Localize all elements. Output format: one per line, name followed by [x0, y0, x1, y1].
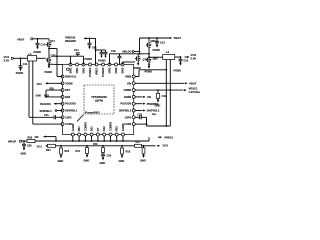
capacitor C21: [44, 114, 63, 119]
wire QB2 source: [148, 63, 150, 66]
svg-text:CSP2: CSP2: [125, 116, 132, 119]
svg-text:(QFN): (QFN): [95, 98, 103, 102]
svg-text:QT3: QT3: [143, 58, 148, 61]
pin left CON1: [61, 123, 73, 127]
wire L2 leg B: [169, 60, 171, 127]
svg-text:GND: GND: [119, 159, 125, 163]
pin bottom RT: [96, 127, 100, 136]
svg-text:SKIPSEL1: SKIPSEL1: [40, 110, 53, 113]
wire EN3 row: [36, 95, 63, 98]
ground PGND C11: [16, 71, 24, 75]
svg-text:R13: R13: [93, 143, 98, 146]
wire VINLDO: [134, 52, 139, 54]
svg-text:SW2: SW2: [121, 67, 125, 73]
capacitor C61: [88, 38, 98, 49]
svg-text:VBAT: VBAT: [189, 81, 197, 85]
pin left VDDM: [61, 82, 72, 86]
resistor R13: [93, 143, 104, 153]
resistor R19: [140, 146, 146, 163]
PowerPAD dashed pad: [84, 85, 114, 114]
svg-text:PGND: PGND: [45, 70, 53, 74]
svg-text:SS2: SS2: [102, 126, 106, 132]
terminal VO2: [191, 53, 197, 60]
pin top PGND2: [101, 63, 105, 77]
ground GND C42: [155, 98, 161, 107]
svg-text:C30: C30: [27, 145, 32, 148]
svg-text:PGND: PGND: [153, 48, 161, 52]
pin left EN3: [61, 95, 71, 99]
wire QT2 source: [48, 63, 62, 66]
svg-text:EN3: EN3: [65, 96, 70, 99]
wire pin drop 79.1: [78, 136, 80, 142]
wire VO1 feedback row: [37, 82, 63, 86]
wire VINSB row: [135, 89, 186, 91]
svg-text:PowerPAD: PowerPAD: [85, 111, 100, 115]
wire RST row: [46, 89, 63, 97]
svg-text:VO1: VO1: [37, 144, 43, 148]
svg-text:R33: R33: [28, 137, 33, 140]
wire switch node left: [48, 48, 57, 58]
wire pin drop 97.9: [97, 136, 99, 142]
svg-text:VINLDO: VINLDO: [122, 51, 132, 54]
wire switch to L2: [148, 56, 163, 58]
svg-text:ON: ON: [147, 95, 151, 99]
svg-text:PGOOD3: PGOOD3: [40, 103, 51, 106]
svg-text:PGOOD3: PGOOD3: [65, 103, 76, 106]
wire ENSB row: [135, 95, 151, 99]
svg-text:C14: C14: [74, 49, 79, 52]
ground PGND QT2: [45, 66, 53, 74]
pin right VIN: [127, 82, 135, 86]
wire pin drop 85.4: [85, 136, 87, 142]
resistor R16: [58, 145, 70, 163]
pin right CON2: [124, 123, 135, 127]
wire VBAT rail left: [33, 38, 49, 40]
pin right PGOOD0: [120, 102, 135, 106]
svg-text:VO3: VO3: [163, 143, 169, 147]
pin bottom FB2: [115, 126, 119, 136]
pin bottom FB1: [77, 126, 81, 136]
svg-text:VIN2: VIN2: [114, 67, 118, 73]
wire bottom bus: [35, 136, 162, 141]
PowerPAD corner tie: [77, 115, 84, 122]
wire L2 out: [175, 56, 190, 58]
svg-text:VINB: VINB: [125, 76, 131, 79]
capacitor C16: [104, 50, 108, 58]
transistor QT3: [135, 56, 148, 62]
terminal VREG1: [164, 135, 174, 139]
svg-text:PGND: PGND: [34, 50, 42, 54]
inductor L1: [28, 52, 37, 61]
wire VO1 to L1: [14, 57, 28, 59]
wire VREG33: [84, 37, 96, 64]
capacitor C11: [19, 58, 28, 71]
svg-text:C42: C42: [162, 95, 167, 98]
resistor R18: [119, 145, 131, 163]
transistor QB1: [146, 38, 156, 48]
svg-text:FB1: FB1: [77, 126, 81, 132]
svg-text:ENSB: ENSB: [124, 96, 131, 99]
svg-text:C31: C31: [184, 58, 189, 62]
svg-text:C23: C23: [138, 113, 143, 116]
transistor QT1: [46, 39, 56, 48]
wire VREG rail top-left: [52, 56, 84, 64]
pin top VIN1: [75, 63, 79, 74]
ground PGND C13: [153, 48, 161, 52]
svg-text:COMP1: COMP1: [83, 121, 87, 131]
wire pin drop 116.7: [116, 136, 118, 142]
svg-text:VIN1: VIN1: [75, 67, 79, 73]
pin bottom SS2: [102, 126, 106, 136]
capacitor C18: [111, 50, 122, 65]
wire PGOOD3 row: [40, 103, 63, 106]
ground PGND C12: [34, 50, 42, 54]
op-amp U1 PMIC body: [63, 65, 134, 135]
pin 1 indicator: [67, 68, 70, 71]
svg-text:COMP2: COMP2: [109, 121, 113, 131]
svg-text:GND: GND: [36, 95, 42, 98]
resistor R34: [46, 144, 135, 152]
capacitor C34: [100, 153, 112, 166]
svg-text:C18: C18: [111, 50, 116, 53]
svg-text:VIN1: VIN1: [82, 67, 86, 73]
wire pin drop 110.5: [110, 136, 112, 142]
svg-text:C61: C61: [92, 46, 97, 49]
resistor R33: [22, 137, 35, 143]
svg-text:QT1: QT1: [50, 40, 55, 43]
wire QT3 drain: [137, 54, 139, 56]
resistor C42 filter: [156, 90, 166, 98]
svg-text:GND: GND: [21, 151, 27, 155]
wire CON2 row: [135, 123, 170, 127]
terminal VO1: [4, 55, 14, 62]
pin bottom SS1: [90, 126, 94, 136]
capacitor C30: [22, 141, 32, 151]
U1 part number text: [91, 95, 107, 103]
svg-text:R34: R34: [46, 149, 51, 152]
pin left PGOOD3: [61, 102, 76, 106]
wire SKIPSEL1 row: [40, 110, 63, 113]
transistor QB2: [146, 57, 159, 63]
svg-text:VIN: VIN: [127, 82, 131, 85]
pin top VIN1: [82, 63, 86, 74]
svg-text:VRSC1: VRSC1: [189, 86, 198, 90]
wire VINB row: [135, 70, 166, 77]
capacitor C23: [135, 113, 146, 126]
pin left CSP1: [61, 116, 72, 120]
svg-text:R16: R16: [65, 150, 70, 153]
wire SKIPSEL2 row: [135, 109, 160, 116]
svg-text:PGOOD0: PGOOD0: [120, 103, 131, 106]
svg-text:C12: C12: [41, 43, 46, 47]
node VREG33: [65, 36, 76, 43]
wire pin drop 72.8: [72, 136, 74, 142]
pin right VINSB: [123, 89, 135, 93]
terminal VO3: [157, 143, 168, 147]
svg-text:PGND: PGND: [16, 71, 24, 75]
pin top SW1: [69, 63, 73, 73]
wire gate riser left: [56, 49, 62, 77]
svg-text:SS1: SS1: [90, 126, 94, 132]
svg-text:QB2: QB2: [153, 58, 159, 61]
svg-text:VIN2: VIN2: [108, 67, 112, 73]
svg-text:RT: RT: [96, 127, 100, 131]
wire L2 leg A: [165, 60, 167, 127]
wire pin drop 123.0: [122, 136, 124, 142]
pin bottom COMP1: [83, 121, 87, 136]
wire VIN row VBAT: [135, 81, 196, 85]
wire QB1 drain riser: [139, 38, 141, 52]
wire mid rail right: [110, 48, 150, 65]
node ON: [35, 135, 57, 142]
wire L1 sense leg A: [29, 61, 53, 117]
pin left SKIPSEL1: [61, 109, 78, 113]
terminal VRSC1: [189, 86, 202, 93]
pin bottom AGND: [121, 123, 125, 136]
svg-text:C13: C13: [160, 41, 165, 45]
terminal VBAT left: [17, 37, 33, 41]
svg-text:VDDM: VDDM: [65, 82, 72, 85]
svg-text:SW1: SW1: [69, 67, 73, 73]
pin left EN/UVLO: [61, 75, 76, 79]
terminal WKUP: [8, 140, 22, 144]
ground PGND QB2: [145, 66, 153, 74]
svg-text:SHIPSEL2: SHIPSEL2: [147, 109, 160, 113]
pin right SKIPSEL2: [119, 109, 135, 113]
svg-text:RST: RST: [65, 89, 70, 92]
svg-text:R17: R17: [136, 141, 141, 144]
svg-text:R11: R11: [76, 150, 81, 153]
svg-text:VREG: VREG: [95, 68, 99, 75]
svg-text:VO1: VO1: [37, 82, 43, 86]
svg-text:CSP1: CSP1: [65, 116, 72, 119]
svg-text:SKIPSEL1: SKIPSEL1: [65, 110, 78, 113]
pin right CSP2: [125, 116, 136, 120]
svg-text:PGND2: PGND2: [101, 67, 105, 77]
ground PGND C15 C16: [98, 59, 106, 63]
capacitor C12: [36, 39, 46, 50]
pin right VINB: [125, 75, 135, 79]
transistor QT2: [46, 54, 56, 63]
svg-text:GND: GND: [140, 159, 146, 163]
svg-text:2.8V: 2.8V: [191, 57, 197, 61]
svg-text:VINSB: VINSB: [123, 89, 131, 92]
pin top VREG: [95, 63, 99, 75]
svg-text:PGND: PGND: [174, 68, 182, 72]
resistor R11: [76, 145, 90, 162]
svg-text:1.2V/10mA: 1.2V/10mA: [189, 90, 201, 94]
svg-text:C11: C11: [23, 63, 28, 66]
svg-text:GND: GND: [58, 159, 64, 163]
capacitor C14: [74, 49, 80, 56]
pin bottom COMP2: [109, 121, 113, 136]
ground GND C30: [21, 151, 27, 155]
svg-text:PGND: PGND: [98, 59, 106, 63]
svg-text:GND: GND: [84, 158, 90, 162]
svg-text:C21: C21: [44, 114, 49, 117]
pin top VIN2: [114, 63, 118, 74]
svg-text:EN/UVLO: EN/UVLO: [65, 76, 76, 79]
svg-text:PGND: PGND: [85, 57, 93, 61]
capacitor C15: [100, 50, 104, 58]
svg-text:FB2: FB2: [115, 126, 119, 132]
ground PGND C61: [85, 57, 93, 61]
wire pin drop 91.6: [91, 136, 93, 142]
svg-text:QB1: QB1: [151, 40, 157, 43]
svg-text:R18: R18: [126, 150, 131, 153]
pin top SW2: [121, 63, 125, 73]
svg-text:VBAT: VBAT: [17, 37, 25, 41]
svg-text:3.3V: 3.3V: [4, 58, 10, 62]
resistor R17: [135, 141, 156, 148]
pin bottom AGND: [71, 123, 75, 136]
svg-text:VBAT: VBAT: [174, 36, 182, 40]
svg-text:PGND1: PGND1: [88, 67, 92, 77]
ground PGND C31: [174, 68, 182, 72]
svg-text:CON2: CON2: [124, 123, 132, 126]
wire pin drop 104.2: [103, 136, 105, 142]
ground PGND QT3: [134, 62, 141, 71]
svg-text:SKIPSEL2: SKIPSEL2: [119, 110, 132, 113]
capacitor C13: [155, 38, 165, 48]
capacitor C31: [179, 57, 189, 66]
svg-text:C34: C34: [107, 154, 112, 157]
inductor L2: [163, 50, 175, 59]
pin top PGND1: [88, 63, 92, 77]
terminal VBAT right: [140, 36, 182, 40]
svg-text:CON1: CON1: [65, 123, 73, 126]
svg-text:REFGND: REFGND: [65, 39, 76, 43]
svg-text:VREG1: VREG1: [164, 135, 174, 139]
wire feedback row: [37, 144, 48, 148]
pin top VIN2: [108, 63, 112, 74]
wire L1 sense leg B: [33, 61, 63, 124]
pin left RST: [61, 89, 71, 93]
PowerPAD text: [85, 111, 100, 115]
wire PGOOD0 row: [135, 102, 158, 106]
wire L1 to QT2: [37, 57, 46, 59]
svg-text:GND: GND: [100, 161, 106, 165]
svg-text:WKUP: WKUP: [8, 140, 16, 144]
wire cap feed top: [95, 49, 106, 51]
node VINLDO: [122, 51, 134, 54]
svg-text:4µs: 4µs: [152, 113, 157, 116]
svg-text:PWRRSB: PWRRSB: [147, 102, 159, 106]
pin right ENSB: [124, 95, 135, 99]
wire QT3 gate: [123, 62, 135, 65]
svg-text:ON: ON: [35, 135, 39, 139]
